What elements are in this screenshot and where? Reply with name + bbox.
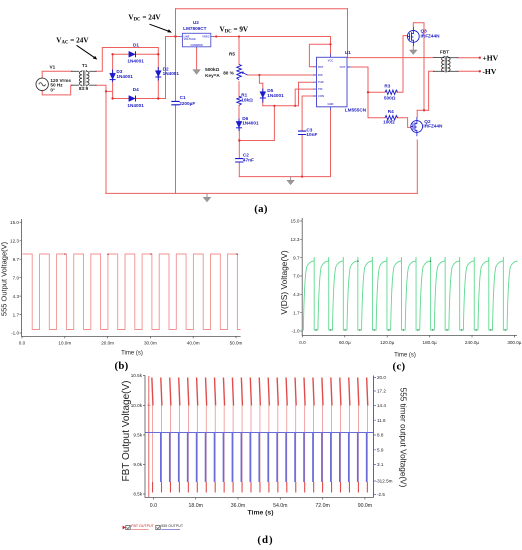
- svg-text:500Ω: 500Ω: [384, 95, 396, 100]
- svg-text:72.0m: 72.0m: [315, 503, 329, 509]
- diode D4: [129, 96, 136, 102]
- svg-text:GND: GND: [328, 102, 334, 106]
- annotation V_DC = 24V with arrow: [128, 14, 172, 33]
- wire C3 bottom: [301, 135, 303, 177]
- svg-text:1N4001: 1N4001: [267, 93, 284, 98]
- svg-text:VOLTAGE: VOLTAGE: [184, 37, 196, 41]
- svg-text:C1: C1: [180, 95, 186, 100]
- svg-text:555 timer output Voltage(V): 555 timer output Voltage(V): [399, 388, 408, 488]
- svg-text:VCC: VCC: [328, 59, 334, 63]
- svg-text:U2: U2: [193, 20, 199, 25]
- wire RST branch: [309, 44, 330, 67]
- svg-text:Key=A: Key=A: [205, 73, 220, 78]
- wire main ground rail: [106, 192, 418, 194]
- diode D5: [260, 89, 266, 103]
- wire CON to C3: [302, 96, 313, 131]
- svg-text:60.0µ: 60.0µ: [339, 340, 351, 345]
- svg-text:V(DS) Voltage(V): V(DS) Voltage(V): [279, 250, 289, 314]
- svg-text:180.0µ: 180.0µ: [423, 340, 437, 345]
- svg-text:10.0k: 10.0k: [131, 403, 143, 408]
- svg-text:9.7: 9.7: [293, 255, 300, 260]
- svg-text:FBT OUTPUT: FBT OUTPUT: [131, 524, 154, 528]
- svg-text:240.0µ: 240.0µ: [465, 340, 479, 345]
- wire 9V rail from regulator: [214, 37, 331, 58]
- wire V1 bottom to T1: [42, 85, 72, 95]
- svg-text:(a): (a): [254, 203, 268, 215]
- svg-text:10.5k: 10.5k: [131, 373, 143, 378]
- wire R4 to Q2 gate: [397, 118, 411, 128]
- diode D1: [129, 51, 136, 57]
- svg-text:50.0m: 50.0m: [230, 341, 243, 346]
- svg-text:10kΩ: 10kΩ: [241, 98, 253, 103]
- gray component lead stubs: [71, 58, 459, 86]
- wire 24V vertical to C1: [175, 9, 177, 102]
- capacitor C1: [171, 101, 179, 104]
- wire bridge left column: [112, 54, 114, 98]
- svg-text:1N4001: 1N4001: [163, 71, 180, 76]
- 555 timer U1 box: [317, 57, 348, 107]
- wire bridge D1 row: [113, 53, 159, 55]
- red FBT trace: [147, 376, 367, 497]
- svg-text:-1.0: -1.0: [11, 331, 19, 336]
- wire D5 node line: [263, 105, 299, 107]
- svg-text:-HV: -HV: [482, 67, 496, 76]
- svg-text:IRFZ44N: IRFZ44N: [421, 33, 441, 38]
- svg-text:0.0: 0.0: [19, 341, 26, 346]
- svg-text:(b): (b): [114, 360, 128, 372]
- svg-text:1N4001: 1N4001: [127, 59, 144, 64]
- svg-text:10nF: 10nF: [306, 132, 317, 137]
- wire Q2 drain stub: [416, 110, 418, 117]
- svg-text:R5: R5: [229, 51, 235, 56]
- svg-text:0.0: 0.0: [150, 503, 157, 509]
- svg-text:15.0: 15.0: [10, 220, 19, 225]
- svg-text:DIS: DIS: [318, 73, 323, 77]
- svg-text:Time (s): Time (s): [248, 510, 274, 517]
- svg-text:120.0µ: 120.0µ: [380, 340, 394, 345]
- wire 24V top rail: [176, 8, 348, 10]
- svg-text:7.0: 7.0: [293, 274, 300, 279]
- wire regulator common lead: [196, 47, 198, 69]
- diode D3: [110, 70, 116, 83]
- wire AC2 branch to bridge left column: [106, 90, 113, 92]
- svg-text:-1.0: -1.0: [292, 329, 300, 334]
- schematic blue labels: [116, 20, 443, 162]
- diode D2: [155, 67, 161, 81]
- svg-text:OUT: OUT: [340, 65, 346, 69]
- svg-text:5.9: 5.9: [377, 448, 384, 453]
- svg-text:LM7809CT: LM7809CT: [183, 26, 207, 31]
- svg-text:18.0m: 18.0m: [188, 503, 202, 509]
- wire C2 bottom to 555 rail: [238, 162, 240, 176]
- svg-text:3.1: 3.1: [377, 462, 384, 467]
- mosfet Q2: [411, 117, 423, 136]
- svg-text:(c): (c): [393, 360, 406, 372]
- svg-text:100Ω: 100Ω: [383, 119, 395, 124]
- svg-text:0°: 0°: [50, 87, 55, 92]
- svg-text:4.3: 4.3: [13, 294, 20, 299]
- ground arrow main rail: [203, 193, 211, 202]
- wire Q3 drain loop: [413, 23, 424, 111]
- svg-text:+HV: +HV: [482, 53, 498, 62]
- svg-text:8.8: 8.8: [377, 433, 384, 438]
- wire D5 column: [262, 83, 264, 106]
- wire FBT secondary top to +HV: [458, 57, 480, 59]
- svg-text:555 OUTPUT: 555 OUTPUT: [161, 524, 184, 528]
- wire V1 top to T1: [42, 71, 72, 78]
- regulator U2 box: [180, 33, 214, 48]
- svg-text:300.0µ: 300.0µ: [507, 340, 521, 345]
- svg-text:12.3: 12.3: [291, 237, 300, 242]
- svg-text:12.3: 12.3: [10, 239, 19, 244]
- svg-text:30.0m: 30.0m: [144, 341, 157, 346]
- wire wiper jog to D5: [259, 75, 262, 83]
- svg-text:THR: THR: [318, 80, 324, 84]
- wire THR branch: [299, 82, 314, 106]
- resistor R1: [237, 96, 242, 105]
- schematic black labels: [50, 50, 450, 93]
- wire 555 OUT down: [351, 67, 369, 118]
- wire Q3 source stub: [412, 46, 414, 50]
- diode D6: [236, 119, 242, 132]
- wire pot wiper to DIS: [247, 74, 313, 76]
- wire bridge D4 row: [113, 98, 166, 100]
- svg-text:7.0: 7.0: [13, 275, 20, 280]
- svg-text:Time (s): Time (s): [121, 350, 143, 356]
- svg-text:VAC = 24V: VAC = 24V: [56, 36, 89, 45]
- blue 555 trace: [145, 433, 374, 483]
- wire bridge output to regulator input: [166, 37, 180, 99]
- svg-text:20.0m: 20.0m: [101, 341, 114, 346]
- svg-text:IRFZ44N: IRFZ44N: [423, 124, 443, 129]
- svg-text:20.0: 20.0: [377, 375, 386, 380]
- wire TRI branch: [295, 89, 313, 106]
- svg-text:FBT: FBT: [440, 50, 449, 55]
- wire R4 left lead: [368, 117, 385, 119]
- svg-text:1N4001: 1N4001: [116, 74, 133, 79]
- svg-text:COMMON: COMMON: [191, 43, 203, 47]
- svg-text:40.0m: 40.0m: [187, 341, 200, 346]
- svg-text:Time (s): Time (s): [394, 353, 416, 359]
- mosfet Q3: [407, 27, 419, 46]
- wire R3 left lead: [368, 91, 385, 93]
- wire FBT secondary bottom to -HV: [458, 70, 480, 72]
- flyback transformer FBT: [441, 56, 451, 73]
- wire C2 node to D5 node: [239, 106, 274, 141]
- svg-text:VDC = 9V: VDC = 9V: [220, 26, 249, 35]
- ground arrow below regulator: [193, 70, 201, 75]
- wire C1 bottom to ground rail: [175, 105, 177, 193]
- resistor R4: [385, 116, 398, 121]
- annotation V_AC = 24V with arrow: [56, 36, 97, 59]
- svg-text:2200µF: 2200µF: [179, 101, 195, 106]
- svg-text:11.6: 11.6: [377, 418, 386, 423]
- svg-text:U1: U1: [345, 50, 351, 55]
- wire T1 secondary bottom to ground rail: [96, 85, 106, 193]
- svg-text:CON: CON: [318, 94, 324, 98]
- svg-text:R3: R3: [384, 83, 390, 88]
- svg-text:4.3: 4.3: [293, 292, 300, 297]
- svg-text:9.5k: 9.5k: [133, 433, 142, 438]
- junction dots: [105, 35, 481, 177]
- wire R5 to R1: [238, 82, 240, 97]
- svg-text:-312.5m: -312.5m: [376, 479, 393, 484]
- svg-text:D4: D4: [133, 87, 139, 92]
- svg-text:90.0m: 90.0m: [358, 503, 372, 509]
- svg-text:VREG: VREG: [202, 35, 209, 39]
- svg-text:83:9: 83:9: [79, 86, 89, 91]
- wire R3 to Q3 gate: [397, 36, 407, 93]
- wire drain junction row: [417, 109, 428, 111]
- svg-text:VDC = 24V: VDC = 24V: [128, 14, 161, 23]
- wire Q2 source to ground rail: [416, 140, 418, 193]
- capacitor C3: [298, 131, 306, 134]
- axes: [145, 376, 374, 498]
- svg-text:17.2: 17.2: [377, 389, 386, 394]
- wire 555 ground rail: [239, 110, 330, 176]
- svg-text:47nF: 47nF: [243, 158, 254, 163]
- svg-text:LM555CN: LM555CN: [345, 108, 367, 113]
- svg-text:0.0: 0.0: [299, 340, 306, 345]
- capacitor C2: [235, 159, 243, 162]
- svg-text:10.0m: 10.0m: [58, 341, 71, 346]
- svg-text:555 Output Voltage(V): 555 Output Voltage(V): [0, 241, 9, 316]
- svg-text:T1: T1: [82, 63, 88, 68]
- svg-text:R4: R4: [388, 109, 394, 114]
- svg-text:1.7: 1.7: [13, 312, 20, 317]
- ground arrow 555 rail: [287, 177, 294, 185]
- svg-text:14.4: 14.4: [377, 403, 386, 408]
- svg-text:54.0m: 54.0m: [273, 503, 287, 509]
- wire FBT primary bottom: [429, 71, 434, 110]
- svg-text:RST: RST: [318, 65, 324, 69]
- wire T1 secondary top to bridge: [96, 48, 158, 72]
- svg-text:1N4001: 1N4001: [127, 103, 144, 108]
- wire D6 to C2 node: [238, 128, 240, 159]
- ground arrow below Q3: [410, 50, 418, 55]
- svg-text:-2.5: -2.5: [377, 492, 385, 497]
- svg-text:9.0k: 9.0k: [133, 462, 142, 467]
- AC source V1: [36, 78, 48, 90]
- wire R5 top lead: [238, 37, 240, 65]
- svg-text:15.0: 15.0: [291, 219, 300, 224]
- svg-text:D1: D1: [133, 42, 139, 47]
- wire bridge right column: [157, 54, 159, 98]
- legend: [123, 524, 184, 530]
- transformer T1: [79, 70, 89, 87]
- svg-text:500kΩ: 500kΩ: [205, 67, 219, 72]
- svg-text:FBT Output Voltage(V): FBT Output Voltage(V): [121, 381, 132, 482]
- svg-text:(d): (d): [257, 534, 273, 546]
- resistor R3: [385, 90, 398, 95]
- svg-text:8.5k: 8.5k: [133, 492, 142, 497]
- wire 24V rail right drop to FBT row: [348, 9, 434, 58]
- svg-text:TRI: TRI: [318, 87, 323, 91]
- svg-text:1N4001: 1N4001: [242, 121, 259, 126]
- svg-text:9.7: 9.7: [13, 257, 20, 262]
- svg-text:80 %: 80 %: [223, 71, 235, 76]
- wire R1 to D6: [238, 106, 240, 122]
- potentiometer R5: [237, 64, 248, 79]
- svg-text:36.0m: 36.0m: [231, 503, 245, 509]
- svg-text:V1: V1: [50, 64, 56, 69]
- svg-text:1.7: 1.7: [293, 310, 300, 315]
